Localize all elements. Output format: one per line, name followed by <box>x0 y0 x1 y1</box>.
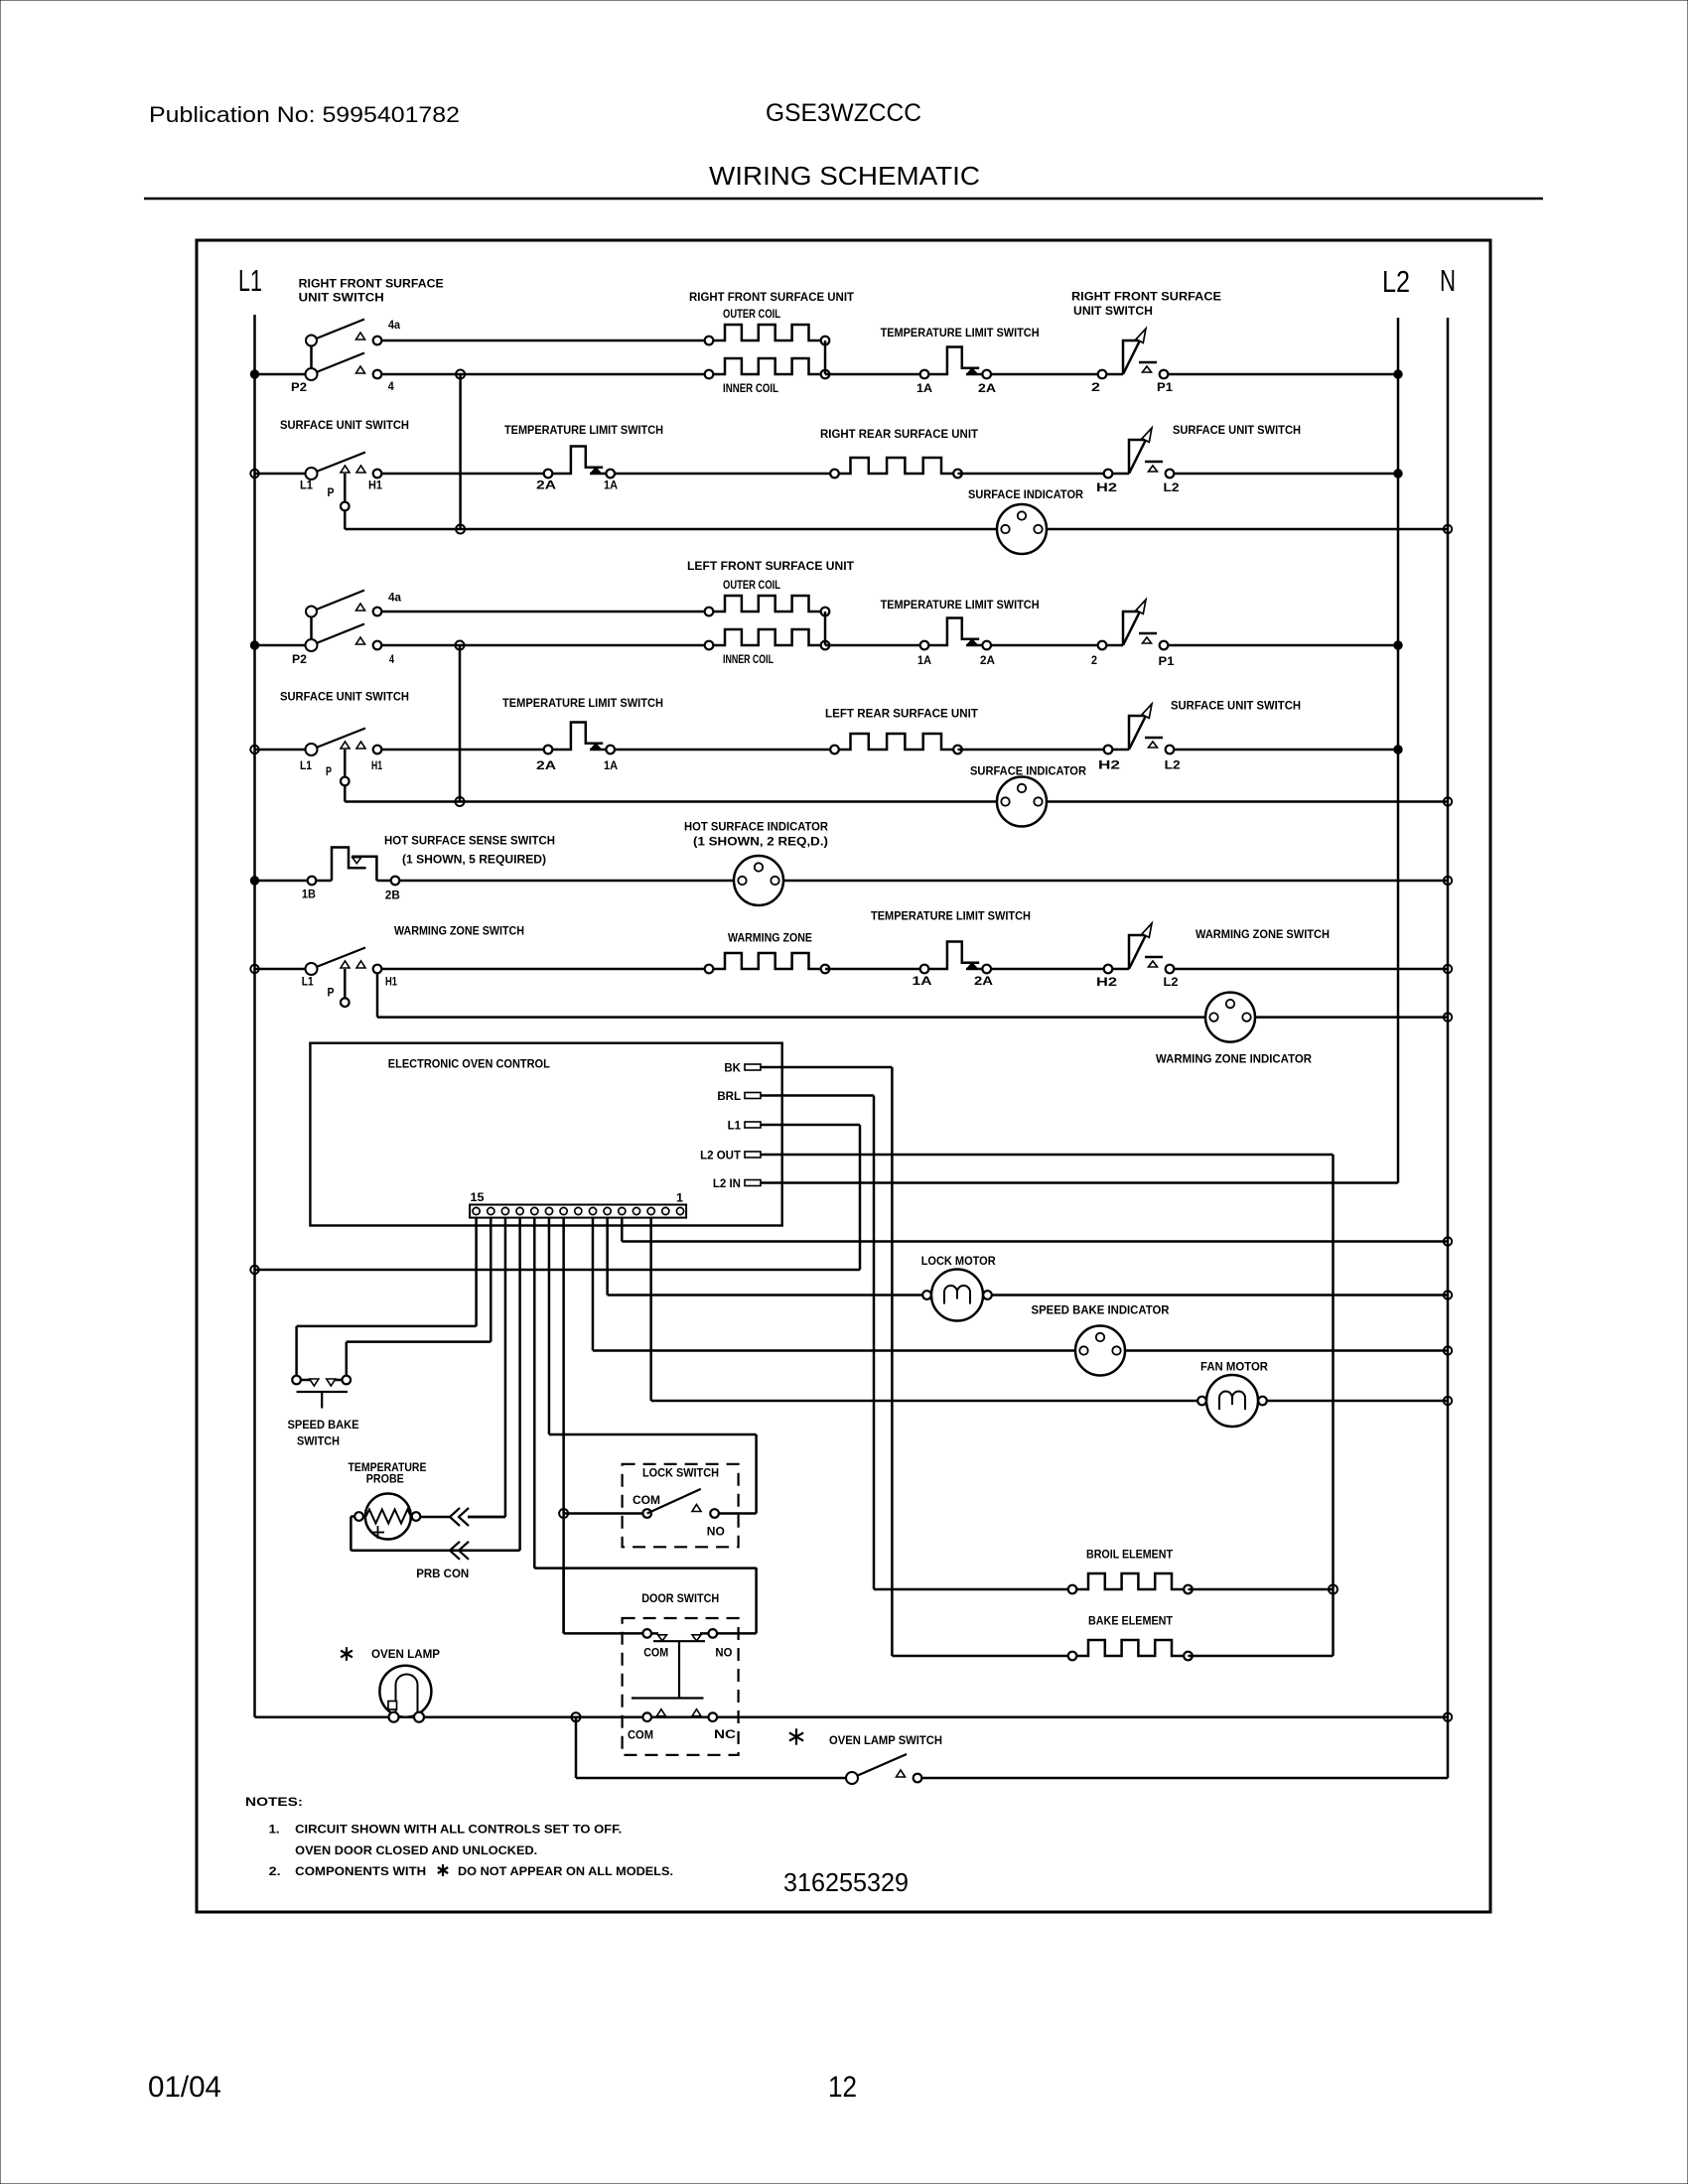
svg-text:L1: L1 <box>300 760 313 772</box>
svg-text:N: N <box>1440 263 1456 298</box>
svg-text:SURFACE UNIT SWITCH: SURFACE UNIT SWITCH <box>280 692 409 704</box>
svg-text:WARMING ZONE SWITCH: WARMING ZONE SWITCH <box>1196 929 1330 941</box>
svg-text:OVEN LAMP SWITCH: OVEN LAMP SWITCH <box>829 1735 942 1747</box>
svg-text:COMPONENTS WITH: COMPONENTS WITH <box>295 1866 426 1878</box>
svg-text:CIRCUIT SHOWN WITH ALL CONTROL: CIRCUIT SHOWN WITH ALL CONTROLS SET TO O… <box>295 1825 622 1837</box>
svg-text:P1: P1 <box>1157 382 1174 394</box>
svg-text:NO: NO <box>715 1648 732 1660</box>
svg-text:Publication No: 5995401782: Publication No: 5995401782 <box>149 102 460 127</box>
svg-text:2A: 2A <box>978 383 996 395</box>
svg-text:SWITCH: SWITCH <box>297 1436 340 1448</box>
svg-text:RIGHT FRONT SURFACE: RIGHT FRONT SURFACE <box>1071 292 1221 304</box>
svg-text:1A: 1A <box>604 760 618 772</box>
svg-text:SPEED BAKE: SPEED BAKE <box>288 1420 359 1432</box>
svg-text:COM: COM <box>628 1730 653 1742</box>
svg-text:(1 SHOWN, 2 REQ,D.): (1 SHOWN, 2 REQ,D.) <box>693 837 828 849</box>
svg-text:OVEN DOOR CLOSED AND UNLOCKED.: OVEN DOOR CLOSED AND UNLOCKED. <box>295 1845 537 1857</box>
svg-text:2.: 2. <box>269 1866 281 1878</box>
svg-text:WARMING ZONE: WARMING ZONE <box>728 933 812 945</box>
svg-text:TEMPERATURE LIMIT SWITCH: TEMPERATURE LIMIT SWITCH <box>881 328 1040 340</box>
svg-text:P2: P2 <box>291 382 307 394</box>
svg-text:1A: 1A <box>913 976 932 988</box>
svg-text:P: P <box>328 988 335 1000</box>
svg-text:L2: L2 <box>1382 264 1410 299</box>
svg-text:SURFACE UNIT SWITCH: SURFACE UNIT SWITCH <box>280 420 409 432</box>
svg-text:OUTER COIL: OUTER COIL <box>723 309 780 321</box>
svg-text:1B: 1B <box>302 889 316 901</box>
svg-text:LOCK MOTOR: LOCK MOTOR <box>921 1256 997 1268</box>
svg-text:BK: BK <box>724 1063 741 1075</box>
svg-text:4: 4 <box>388 381 395 393</box>
svg-text:2: 2 <box>1091 655 1097 667</box>
svg-text:WIRING SCHEMATIC: WIRING SCHEMATIC <box>709 161 980 191</box>
svg-text:H1: H1 <box>385 977 397 989</box>
svg-text:12: 12 <box>828 2071 857 2104</box>
svg-text:4a: 4a <box>388 593 402 605</box>
svg-text:P: P <box>326 766 332 778</box>
svg-text:COM: COM <box>643 1648 668 1660</box>
svg-text:H2: H2 <box>1096 977 1117 989</box>
svg-text:DOOR SWITCH: DOOR SWITCH <box>641 1593 719 1605</box>
svg-text:4a: 4a <box>388 320 401 332</box>
svg-text:INNER COIL: INNER COIL <box>723 383 778 395</box>
svg-text:L1: L1 <box>300 480 314 492</box>
svg-text:316255329: 316255329 <box>783 1867 909 1897</box>
svg-text:2A: 2A <box>980 655 995 667</box>
svg-text:2: 2 <box>1091 382 1100 394</box>
svg-text:RIGHT REAR SURFACE UNIT: RIGHT REAR SURFACE UNIT <box>820 429 978 441</box>
svg-text:2B: 2B <box>385 890 400 902</box>
svg-text:LEFT FRONT SURFACE UNIT: LEFT FRONT SURFACE UNIT <box>687 561 854 573</box>
svg-text:1: 1 <box>676 1193 684 1205</box>
svg-text:NOTES:: NOTES: <box>245 1797 303 1809</box>
svg-text:L2 OUT: L2 OUT <box>700 1151 741 1162</box>
svg-text:INNER COIL: INNER COIL <box>723 654 774 666</box>
svg-text:WARMING ZONE SWITCH: WARMING ZONE SWITCH <box>394 926 524 938</box>
svg-text:2A: 2A <box>536 760 556 772</box>
svg-text:UNIT SWITCH: UNIT SWITCH <box>1073 306 1153 318</box>
svg-text:H1: H1 <box>368 480 383 492</box>
svg-text:PROBE: PROBE <box>366 1474 404 1486</box>
svg-text:UNIT SWITCH: UNIT SWITCH <box>299 293 384 305</box>
svg-text:L2: L2 <box>1164 482 1180 494</box>
svg-text:P1: P1 <box>1159 656 1176 668</box>
svg-text:COM: COM <box>633 1495 660 1507</box>
svg-text:LOCK SWITCH: LOCK SWITCH <box>642 1468 719 1480</box>
svg-text:L2: L2 <box>1164 977 1179 989</box>
svg-text:SURFACE INDICATOR: SURFACE INDICATOR <box>970 766 1087 778</box>
svg-text:HOT SURFACE SENSE SWITCH: HOT SURFACE SENSE SWITCH <box>384 836 555 848</box>
svg-text:SURFACE UNIT SWITCH: SURFACE UNIT SWITCH <box>1173 425 1301 437</box>
svg-text:PRB CON: PRB CON <box>416 1569 469 1580</box>
svg-text:BROIL ELEMENT: BROIL ELEMENT <box>1086 1550 1173 1562</box>
svg-text:BAKE ELEMENT: BAKE ELEMENT <box>1088 1616 1173 1628</box>
svg-text:DO NOT APPEAR ON ALL MODELS.: DO NOT APPEAR ON ALL MODELS. <box>458 1866 673 1878</box>
svg-text:NO: NO <box>707 1527 725 1539</box>
svg-text:P: P <box>328 487 335 499</box>
svg-text:SPEED BAKE INDICATOR: SPEED BAKE INDICATOR <box>1032 1305 1171 1317</box>
svg-text:TEMPERATURE LIMIT SWITCH: TEMPERATURE LIMIT SWITCH <box>504 425 663 437</box>
svg-text:L1: L1 <box>302 977 315 989</box>
svg-text:2A: 2A <box>536 480 556 492</box>
svg-text:BRL: BRL <box>717 1091 741 1103</box>
svg-text:4: 4 <box>389 654 394 666</box>
svg-text:H1: H1 <box>371 760 382 772</box>
svg-text:ELECTRONIC OVEN CONTROL: ELECTRONIC OVEN CONTROL <box>388 1059 550 1071</box>
svg-text:L1: L1 <box>238 263 262 298</box>
svg-text:H2: H2 <box>1098 760 1120 772</box>
svg-text:RIGHT FRONT SURFACE UNIT: RIGHT FRONT SURFACE UNIT <box>689 292 854 304</box>
svg-text:1A: 1A <box>604 480 618 492</box>
svg-text:TEMPERATURE: TEMPERATURE <box>349 1462 427 1474</box>
svg-text:HOT SURFACE INDICATOR: HOT SURFACE INDICATOR <box>684 822 829 834</box>
svg-text:FAN MOTOR: FAN MOTOR <box>1200 1362 1269 1374</box>
svg-text:WARMING ZONE INDICATOR: WARMING ZONE INDICATOR <box>1156 1054 1313 1066</box>
svg-text:2A: 2A <box>974 976 993 988</box>
svg-text:NC: NC <box>714 1729 736 1741</box>
svg-text:TEMPERATURE LIMIT SWITCH: TEMPERATURE LIMIT SWITCH <box>871 911 1031 923</box>
svg-text:OVEN LAMP: OVEN LAMP <box>371 1649 440 1661</box>
svg-text:H2: H2 <box>1096 482 1117 494</box>
svg-text:L2 IN: L2 IN <box>713 1178 741 1190</box>
svg-text:RIGHT FRONT SURFACE: RIGHT FRONT SURFACE <box>299 279 444 291</box>
svg-text:1.: 1. <box>269 1825 280 1837</box>
svg-text:TEMPERATURE LIMIT SWITCH: TEMPERATURE LIMIT SWITCH <box>881 600 1040 612</box>
svg-text:1A: 1A <box>916 383 932 395</box>
svg-text:SURFACE UNIT SWITCH: SURFACE UNIT SWITCH <box>1171 701 1301 713</box>
svg-text:LEFT REAR SURFACE UNIT: LEFT REAR SURFACE UNIT <box>825 709 978 721</box>
svg-text:TEMPERATURE LIMIT SWITCH: TEMPERATURE LIMIT SWITCH <box>502 698 663 710</box>
svg-text:15: 15 <box>471 1192 486 1204</box>
svg-text:01/04: 01/04 <box>148 2071 221 2104</box>
svg-text:L2: L2 <box>1165 760 1181 772</box>
svg-text:(1 SHOWN, 5 REQUIRED): (1 SHOWN, 5 REQUIRED) <box>402 855 546 867</box>
svg-text:P2: P2 <box>292 654 307 666</box>
svg-text:SURFACE INDICATOR: SURFACE INDICATOR <box>968 489 1084 501</box>
svg-text:GSE3WZCCC: GSE3WZCCC <box>766 99 921 127</box>
svg-text:L1: L1 <box>728 1121 742 1133</box>
svg-text:1A: 1A <box>917 655 931 667</box>
svg-text:OUTER COIL: OUTER COIL <box>723 580 780 592</box>
